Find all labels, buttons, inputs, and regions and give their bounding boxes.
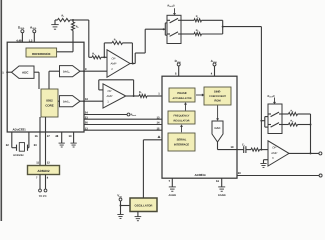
- svg-text:AMP: AMP: [271, 151, 277, 155]
- svg-text:OP: OP: [111, 56, 115, 60]
- svg-text:24: 24: [85, 112, 88, 115]
- svg-text:AMP: AMP: [106, 94, 112, 98]
- svg-text:PHASE: PHASE: [177, 92, 186, 95]
- svg-text:ACCUMULATOR: ACCUMULATOR: [172, 97, 191, 100]
- svg-text:32: 32: [6, 144, 9, 147]
- svg-text:4,48: 4,48: [16, 39, 22, 42]
- svg-text:14: 14: [157, 122, 160, 125]
- svg-text:13: 13: [85, 127, 88, 130]
- svg-text:ADC: ADC: [22, 70, 29, 74]
- svg-text:19: 19: [231, 146, 234, 149]
- svg-text:11: 11: [36, 161, 39, 164]
- svg-text:33: 33: [34, 144, 37, 147]
- svg-text:REFERENCE: REFERENCE: [32, 52, 51, 56]
- svg-text:OP: OP: [107, 89, 111, 93]
- svg-text:OSCILLATOR: OSCILLATOR: [135, 204, 153, 208]
- svg-text:ADM202: ADM202: [37, 169, 49, 173]
- svg-text:CORE: CORE: [45, 104, 53, 108]
- svg-text:20: 20: [238, 172, 241, 175]
- svg-text:INTERFACE: INTERFACE: [174, 143, 189, 146]
- svg-text:13: 13: [157, 116, 160, 119]
- svg-text:ADuC831: ADuC831: [13, 128, 27, 132]
- svg-text:TO PC: TO PC: [39, 195, 47, 198]
- svg-text:SERIAL: SERIAL: [177, 139, 187, 142]
- svg-text:FREQUENCY: FREQUENCY: [174, 115, 190, 118]
- svg-text:AGND: AGND: [168, 194, 176, 197]
- svg-text:ROM: ROM: [214, 99, 221, 102]
- svg-text:REGULATOR: REGULATOR: [174, 119, 190, 122]
- svg-text:AMP: AMP: [110, 62, 116, 66]
- svg-text:16: 16: [35, 135, 38, 138]
- svg-text:DGND: DGND: [218, 194, 226, 197]
- svg-text:COEFFICIENT: COEFFICIENT: [209, 95, 226, 98]
- svg-text:17: 17: [47, 135, 50, 138]
- svg-text:48: 48: [55, 135, 58, 138]
- svg-text:12: 12: [47, 161, 50, 164]
- svg-text:15: 15: [157, 127, 160, 130]
- svg-text:16: 16: [216, 180, 219, 183]
- svg-text:SINE-: SINE-: [214, 90, 221, 93]
- svg-text:26: 26: [85, 122, 88, 125]
- svg-text:1,3: 1,3: [29, 39, 33, 42]
- svg-text:8052: 8052: [46, 99, 53, 103]
- svg-text:OP: OP: [272, 146, 276, 150]
- svg-text:AD9834: AD9834: [194, 173, 205, 177]
- svg-text:DAC: DAC: [214, 126, 220, 130]
- svg-text:23: 23: [85, 116, 88, 119]
- svg-text:13: 13: [69, 135, 72, 138]
- svg-text:HC49/4H: HC49/4H: [13, 154, 23, 157]
- svg-text:10: 10: [85, 98, 88, 101]
